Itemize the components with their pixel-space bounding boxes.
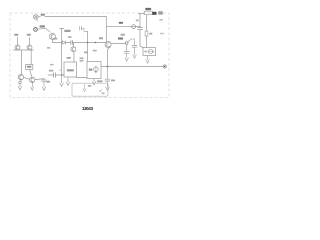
input lead labels <box>14 34 18 36</box>
IC box1 <box>64 62 77 77</box>
label 10v mid <box>118 38 123 40</box>
label R9 <box>27 66 32 68</box>
wire top mid rail <box>106 25 140 27</box>
label node <box>47 47 50 49</box>
LED D5 <box>20 80 21 81</box>
wire T4 right <box>35 79 44 80</box>
fuse F1 <box>139 12 145 14</box>
motor M2 <box>34 28 38 32</box>
junction <box>87 42 89 44</box>
transistor TR1 <box>50 34 56 40</box>
capacitor C15 <box>138 28 143 30</box>
transistor T4 <box>30 77 35 82</box>
wire TR3 <box>72 43 75 63</box>
chassis dashed border <box>10 13 169 98</box>
label 1 <box>145 51 147 53</box>
label small under terminal <box>159 19 163 21</box>
label (~) <box>158 11 163 14</box>
transistor Q1 <box>105 42 111 48</box>
label 403 <box>67 69 74 71</box>
resistor tick <box>59 69 61 71</box>
capacitor C13 <box>132 45 137 47</box>
wire and ground x107 <box>106 67 109 91</box>
node rail mid <box>53 42 62 44</box>
label 17a <box>67 57 72 59</box>
label C12 area <box>121 34 126 36</box>
label 47 <box>47 81 51 83</box>
label 14a <box>84 52 88 54</box>
label inside module <box>88 85 92 87</box>
wire box1 bottom to box2 <box>77 77 88 79</box>
ground T3 <box>18 84 21 90</box>
label 16 <box>89 69 93 71</box>
label C10 <box>49 70 54 72</box>
diode circle D7 <box>132 25 136 29</box>
wire base link <box>24 77 30 79</box>
label R <box>149 33 152 35</box>
label TR TR1 <box>40 25 46 27</box>
capacitor x107 lower <box>105 79 110 81</box>
wire collector drop x106 <box>105 17 107 42</box>
transistor T3 <box>18 74 23 79</box>
wire right column x140 <box>140 13 143 47</box>
wire mid to base <box>72 42 105 44</box>
wire vertical x61 <box>61 29 63 76</box>
ground C13 <box>133 47 136 58</box>
label 140v <box>97 80 103 82</box>
wire <box>30 69 32 77</box>
ground box3 <box>146 56 149 64</box>
junction <box>61 74 63 76</box>
junction <box>107 66 109 68</box>
label corner 12 <box>102 93 105 95</box>
capacitor C2 <box>71 41 73 45</box>
ground box2 bottom <box>92 79 95 86</box>
mark inside module <box>99 89 101 91</box>
capacitor C10 <box>54 73 56 77</box>
wire right column x146.5 <box>146 15 148 48</box>
lamp Da1 <box>33 15 38 20</box>
lamp tail <box>36 19 39 21</box>
label B plus <box>160 33 164 35</box>
label Da1 <box>41 14 45 16</box>
bus plus rail <box>101 66 163 68</box>
label C2 <box>68 36 72 38</box>
regulator box3 <box>143 48 156 56</box>
regulator box2 <box>87 62 101 79</box>
ground box1 bottom <box>66 77 69 85</box>
diode left <box>15 45 20 50</box>
meter circle in box2 <box>94 67 99 72</box>
ground inside module <box>83 84 86 91</box>
resistor R9 <box>26 64 33 69</box>
resistor R14 <box>145 31 148 36</box>
diode right <box>27 45 32 50</box>
label left of column <box>136 20 139 22</box>
label 1,2 <box>145 8 151 10</box>
wire TR1 emitter <box>52 40 54 43</box>
ground left of box1 <box>60 75 63 86</box>
wire joining pair <box>14 49 34 51</box>
terminal plus <box>163 65 166 68</box>
label 10v top <box>119 22 123 24</box>
terminal tilde <box>152 12 156 15</box>
label R8 <box>54 38 58 40</box>
capacitor C6 branch <box>80 27 82 31</box>
ground T4 <box>31 83 34 91</box>
label 4,7 <box>80 58 84 60</box>
transistor TR3 <box>71 47 76 52</box>
node tick x61 <box>60 28 64 30</box>
label T2 <box>99 37 103 39</box>
label R5 <box>64 30 70 32</box>
label 1,5 <box>111 80 115 82</box>
node circle <box>125 42 128 45</box>
capacitor C4 <box>42 80 47 82</box>
junction <box>95 42 97 44</box>
wire <box>66 42 71 44</box>
label 17 <box>93 50 97 52</box>
svg-text:13043: 13043 <box>82 106 94 111</box>
wire to TR1 <box>37 29 50 33</box>
wire drop right chain <box>30 50 32 64</box>
ground C12 <box>125 53 128 61</box>
wire Q1 emitter drop <box>108 47 110 66</box>
wire top rail <box>38 16 106 18</box>
wire x87 drop <box>87 31 89 61</box>
input leads <box>18 38 30 46</box>
diode D3 <box>62 41 65 44</box>
wire Q1 right <box>111 43 125 45</box>
wire box1 left <box>48 74 64 76</box>
output module box <box>72 83 108 96</box>
capacitor C12 <box>124 44 129 53</box>
wire drop left chain <box>21 50 23 74</box>
ground C4 <box>42 82 45 91</box>
wire node diagonal <box>128 39 135 45</box>
